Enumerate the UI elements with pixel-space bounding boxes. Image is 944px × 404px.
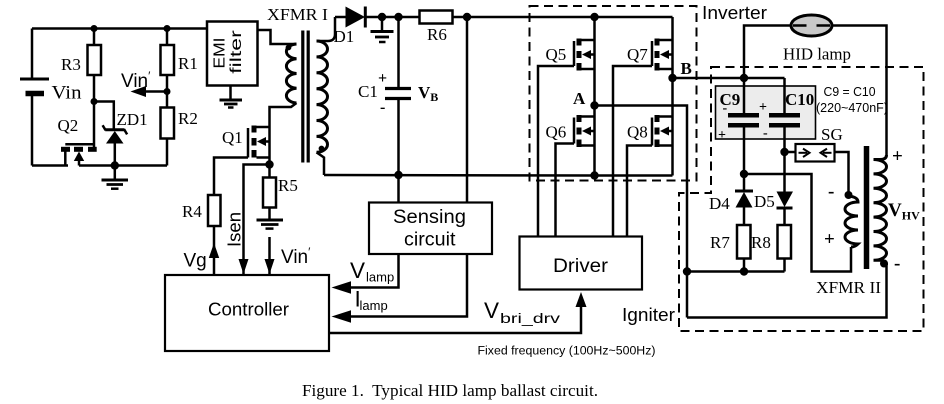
svg-text:R6: R6 <box>427 25 447 44</box>
svg-text:+: + <box>378 70 387 87</box>
node XFMR II primary dot <box>845 191 853 199</box>
wire Q7 gate to driver <box>613 66 652 238</box>
diode D5 <box>754 192 793 226</box>
node B cap tap <box>740 74 748 82</box>
svg-text:R7: R7 <box>710 233 730 252</box>
diode D4 <box>709 174 753 225</box>
wire XFMR II primary return <box>744 174 851 272</box>
ground left <box>102 166 129 189</box>
svg-text:B: B <box>681 59 692 78</box>
resistor R5 <box>263 165 298 220</box>
transformer XFMR I primary winding <box>286 44 296 103</box>
zener diode ZD1 <box>94 102 148 166</box>
svg-text:D4: D4 <box>709 194 730 213</box>
svg-text:Q8: Q8 <box>627 123 648 142</box>
wire secondary top lead <box>317 17 336 41</box>
svg-text:+: + <box>718 128 726 143</box>
svg-text:R1: R1 <box>178 54 198 73</box>
node D4 top <box>740 170 748 178</box>
capacitor block C9 C10 <box>716 86 816 139</box>
node Q1 source <box>265 160 273 168</box>
wire VB sense down to sensing circuit <box>466 17 469 203</box>
capacitor C9 <box>718 78 759 174</box>
wire node A to igniter <box>595 106 688 318</box>
wire Q8 gate to driver <box>627 146 652 239</box>
spark gap SG <box>785 144 835 162</box>
svg-text:circuit: circuit <box>404 230 456 251</box>
svg-text:D1: D1 <box>334 27 355 46</box>
wire top rail R6 to inverter <box>453 16 673 19</box>
svg-text:Figure 1. Typical HID lamp ba: Figure 1. Typical HID lamp ballast circu… <box>302 381 598 400</box>
wire SG to XFMR II primary top <box>835 152 849 193</box>
wire Vlamp to controller <box>345 254 399 288</box>
wire Vin-prime arrow into controller <box>268 237 271 275</box>
wire bottom rail segment B <box>79 164 167 167</box>
svg-text:+: + <box>892 146 903 167</box>
svg-text:-: - <box>763 126 768 141</box>
igniter dashed box <box>679 67 924 331</box>
resistor R6 <box>420 11 453 45</box>
node SG tap <box>780 148 788 156</box>
wire Q5 gate to driver <box>538 66 574 238</box>
svg-text:SG: SG <box>821 125 843 144</box>
svg-text:filter: filter <box>228 30 245 74</box>
svg-text:+: + <box>824 229 835 250</box>
node top rail inverter <box>590 13 598 21</box>
battery Vin <box>20 29 82 166</box>
svg-text:Vin: Vin <box>52 83 83 104</box>
arrowhead Vg out of controller <box>209 243 219 258</box>
resistor R4 <box>182 195 221 275</box>
svg-text:Q2: Q2 <box>58 116 79 135</box>
transistor Q8 <box>627 78 673 176</box>
wire igniter diode rail <box>687 270 785 273</box>
svg-text:Vin′: Vin′ <box>121 69 151 92</box>
wire primary bottom to Q1 drain <box>270 103 297 127</box>
svg-text:A: A <box>573 89 586 108</box>
svg-text:Fixed frequency (100Hz~500Hz): Fixed frequency (100Hz~500Hz) <box>478 344 656 358</box>
wire secondary bottom lead <box>317 152 325 175</box>
svg-text:+: + <box>759 100 767 115</box>
node inverter bottom rail <box>590 171 598 179</box>
wire node B to capacitors <box>673 77 785 80</box>
svg-text:Vg: Vg <box>184 251 207 272</box>
svg-text:R2: R2 <box>178 109 198 128</box>
node R1 top <box>164 25 171 32</box>
node C1 top <box>394 13 402 21</box>
wire ground rail <box>324 174 595 177</box>
transistor Q2 <box>58 116 97 166</box>
XFMR I core <box>303 31 308 163</box>
diode D1 <box>334 7 366 47</box>
svg-text:Controller: Controller <box>208 299 289 320</box>
transformer XFMR II primary winding <box>845 196 858 247</box>
inverter dashed box <box>530 6 697 181</box>
capacitor C1 <box>358 17 438 203</box>
resistor R1 <box>161 29 198 108</box>
svg-text:Driver: Driver <box>553 255 609 277</box>
svg-text:HID lamp: HID lamp <box>783 45 851 64</box>
svg-text:-: - <box>828 181 834 202</box>
node R7 bottom <box>740 267 748 275</box>
arrowhead Ilamp <box>332 310 352 322</box>
wire top-left rail <box>32 27 207 30</box>
svg-text:Isen: Isen <box>224 212 245 247</box>
transistor Q1 <box>248 126 270 165</box>
XFMR II core <box>864 146 870 269</box>
wire HID lamp left lead <box>744 26 791 79</box>
svg-text:Sensing: Sensing <box>393 207 466 228</box>
wire EMI to XFMR primary <box>258 30 297 44</box>
svg-text:V: V <box>350 258 365 283</box>
node R3 bottom <box>91 98 98 105</box>
svg-text:D5: D5 <box>754 192 775 211</box>
transformer XFMR II secondary winding <box>874 155 887 265</box>
node ground tap <box>378 13 386 21</box>
svg-text:bri_drv: bri_drv <box>500 311 560 326</box>
wire R3 node to Q2 <box>93 102 96 150</box>
svg-text:XFMR I: XFMR I <box>267 5 328 24</box>
resistor R8 <box>751 225 791 272</box>
svg-text:-: - <box>380 99 385 116</box>
node R6 right <box>463 13 471 21</box>
wire top rail D1 to R6 <box>365 16 419 19</box>
resistor R7 <box>710 225 751 272</box>
transistor Q6 <box>546 106 595 176</box>
svg-text:Inverter: Inverter <box>702 2 767 23</box>
Controller box <box>165 275 329 351</box>
Driver box <box>520 237 643 290</box>
node secondary polarity dot <box>319 146 325 152</box>
capacitor C10 <box>759 78 814 192</box>
svg-text:C1: C1 <box>358 82 378 101</box>
svg-text:Q7: Q7 <box>627 45 648 64</box>
svg-text:-: - <box>723 101 728 116</box>
node ZD1 bottom <box>111 161 119 169</box>
svg-text:lamp: lamp <box>366 270 394 285</box>
node XFMR II secondary dot <box>880 260 888 268</box>
arrowhead Vin-prime <box>265 259 275 274</box>
resistor R2 <box>161 108 198 166</box>
wire Q1 gate to R4 <box>214 158 248 196</box>
wire inverter bottom rail <box>595 174 673 177</box>
svg-text:C10: C10 <box>785 90 814 109</box>
node C1 bottom rail <box>394 171 402 179</box>
svg-text:-: - <box>894 253 900 274</box>
EMI filter box <box>207 22 258 86</box>
ground EMI <box>220 86 243 108</box>
svg-text:XFMR II: XFMR II <box>816 278 881 297</box>
node B <box>668 74 676 82</box>
arrowhead Isen into controller <box>239 259 249 274</box>
svg-text:R8: R8 <box>751 233 771 252</box>
transistor Q7 <box>627 17 673 78</box>
transformer XFMR I secondary winding <box>317 41 328 152</box>
node primary polarity dot <box>286 45 292 51</box>
arrowhead Vbri_drv <box>576 292 587 307</box>
node R3 top <box>91 25 98 32</box>
transistor Q5 <box>546 17 595 106</box>
svg-text:(220~470nF): (220~470nF) <box>816 101 888 115</box>
wire Q6 gate to driver <box>556 144 575 239</box>
svg-text:lamp: lamp <box>360 298 388 313</box>
arrowhead Vlamp <box>332 281 352 293</box>
svg-text:Igniter: Igniter <box>622 305 675 325</box>
node R1 R2 <box>164 88 171 95</box>
svg-text:C9 = C10: C9 = C10 <box>824 85 876 99</box>
HID lamp <box>783 15 851 64</box>
label Vin-prime left with arrow <box>121 69 167 97</box>
wire XFMR II secondary bottom to igniter rail <box>687 265 887 318</box>
node igniter rail left <box>683 267 691 275</box>
resistor R3 <box>61 29 101 102</box>
svg-text:Q6: Q6 <box>546 123 567 142</box>
wire Vbri_drv from controller to driver <box>329 300 581 333</box>
wire bottom-left rail <box>32 164 68 167</box>
svg-text:Q1: Q1 <box>222 128 243 147</box>
ground R5 <box>257 220 284 229</box>
svg-text:Vin′: Vin′ <box>281 245 311 268</box>
svg-text:R4: R4 <box>182 202 202 221</box>
wire HID lamp right lead <box>832 26 887 156</box>
svg-text:R5: R5 <box>278 176 298 195</box>
wire Ilamp to controller <box>345 254 467 317</box>
svg-text:Q5: Q5 <box>546 45 567 64</box>
wire Isen tap <box>244 165 270 276</box>
svg-text:V: V <box>484 298 499 323</box>
svg-text:R3: R3 <box>61 55 81 74</box>
node A <box>590 101 598 109</box>
svg-text:EMI: EMI <box>212 38 229 69</box>
ground top rail <box>371 17 394 42</box>
svg-text:ZD1: ZD1 <box>117 110 148 129</box>
Sensing circuit box <box>369 203 492 255</box>
